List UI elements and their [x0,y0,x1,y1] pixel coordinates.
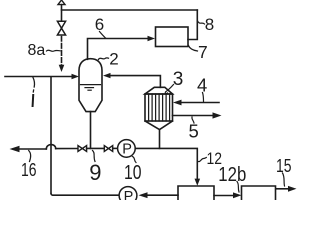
lead line 10 squiggle [133,157,137,163]
arrowhead into box 14 [233,192,242,198]
svg-text:9: 9 [89,160,101,185]
label 10 [124,162,142,184]
lead line 16 [29,151,31,162]
svg-text:15: 15 [276,156,292,176]
wire between valves [87,147,105,149]
label 4 [197,75,207,96]
wire box 13 to box 14 [214,195,234,197]
node: recycle tee, left vertical riser x51 [50,77,52,193]
lead line 15 [283,173,285,186]
lead line 12 squiggle [198,158,206,162]
arrowhead feed into vessel 2 [72,74,80,79]
wire top header line (x61.5 to x197.3 at y10) [62,9,198,11]
arrowhead line 15 [288,186,297,192]
label 9 [89,160,101,185]
box 13 [178,186,214,201]
svg-text:P: P [122,142,132,158]
label 8 [205,15,214,34]
wire line 4 (inlet to exchanger) [180,102,219,104]
wire from box 13 to pump 11 [146,194,178,196]
heat exchanger 3 tubes hatching [149,94,170,121]
wire vent stub [61,5,63,22]
arrowhead into vessel 2 right side [103,73,111,78]
wire dashed feed from valve 8a down [61,37,63,66]
vent arrowhead (open triangle, top of valve line) [58,0,65,5]
lead line 12b [237,182,239,193]
pump 10 P [122,142,132,158]
lead line 5 [192,117,194,123]
lead line 4 [203,93,204,102]
svg-text:3: 3 [173,69,184,90]
label 1 with curved lead [33,78,35,93]
wire exchanger bottom outlet down [159,130,161,149]
wire bottom recycle line to pump 11 [53,194,118,196]
svg-text:10: 10 [124,162,142,184]
arrowhead line 4 into exchanger [173,100,182,106]
lead line 2 tilde [99,58,109,60]
label 3 [173,69,184,90]
wire line 5 (outlet from exchanger) [173,115,215,117]
box 14 [242,186,276,201]
svg-text:P: P [124,189,134,200]
lead line 3 [165,85,173,94]
svg-text:8: 8 [205,15,214,34]
wire product line 15 out of box 14 [276,188,289,190]
arrowhead line 6 into box 7 [148,36,156,41]
wire feed line 1 (y76.5) [5,76,73,78]
heat exchanger 3 tube bundle [145,94,173,121]
vessel 2 shell [79,59,102,112]
wire box 7 right to riser x197.3 [188,10,197,40]
valve 8a (vertical bowtie) [57,21,65,35]
svg-text:2: 2 [109,50,118,69]
arrowhead down into box 13 [195,179,201,186]
wire vessel overhead line 6 up and right to box 7 [88,39,149,60]
svg-text:7: 7 [198,42,208,62]
svg-text:8a: 8a [28,42,46,59]
box 7 (condenser) [156,27,189,47]
label 12 [207,150,223,168]
lead line 6 [100,32,106,39]
heat exchanger 3 top head [145,87,173,94]
lead line 8 squiggle [197,21,204,25]
label 8a [28,42,46,59]
wire vessel 2 bottom outlet down to valve line [90,112,92,149]
heat exchanger 3 bottom head [145,121,173,130]
label 16 [21,159,37,180]
svg-text:16: 16 [21,159,37,180]
vessel 2 liquid level mark [81,85,101,91]
label 7 [198,42,208,62]
valve (second bowtie) [104,146,112,152]
label 15 [276,156,292,176]
arrowhead line 16 out left [10,146,20,152]
wire purge line 16 (y148.4) with hop over riser [17,148,46,150]
label 6 [95,15,104,34]
lead line 9 squiggle [93,151,96,162]
arrowhead into pump 11 [139,192,148,198]
pump 11 circle (cut at bottom edge) [119,187,137,205]
valve 9 (bowtie) [78,146,87,152]
lead line 7 [189,46,198,52]
wire pump 10 discharge to corner and down to box 13 [136,148,198,179]
pump 11 P [124,189,134,205]
lead line 8a squiggle [47,50,61,51]
wire from exchanger top to vessel 2 (y75.6) [110,76,160,88]
arrowhead down into feed line [59,65,65,72]
svg-text:12b: 12b [218,164,246,186]
label 5 [189,121,199,142]
label 12b [218,164,246,186]
arrowhead line 5 out [213,112,222,118]
pump 10 circle [118,140,136,158]
wire valve to pump 10 [113,147,118,149]
label 2 [109,50,118,69]
